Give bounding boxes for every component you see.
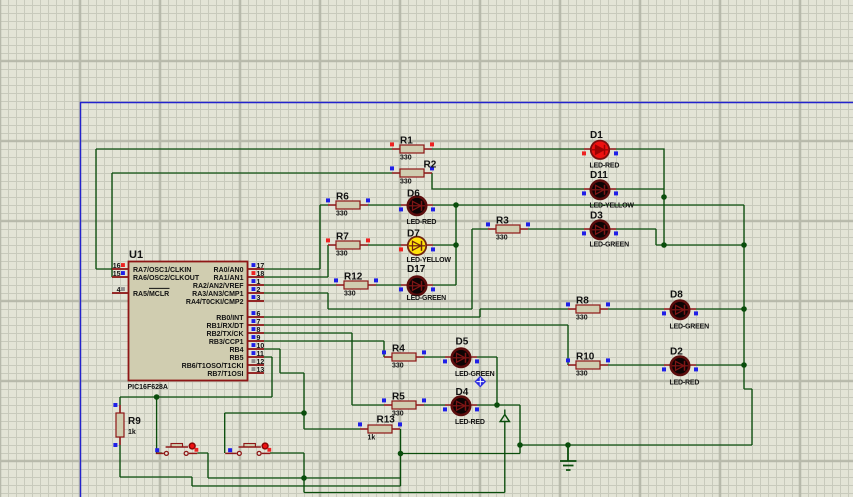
svg-text:D6: D6: [407, 189, 420, 200]
svg-text:R8: R8: [576, 296, 589, 307]
wire D1 right down x=664: [616, 149, 664, 245]
wire row453 to dot400: [401, 453, 521, 455]
svg-text:9: 9: [257, 335, 261, 342]
U1 pin 2 stub and number: [248, 292, 264, 294]
svg-text:RA7/OSC1/CLKIN: RA7/OSC1/CLKIN: [133, 267, 191, 274]
svg-text:U1: U1: [129, 249, 143, 261]
U1 pin 15 stub and number: [112, 276, 128, 278]
wire pin7 RB1 to R10: [264, 325, 568, 365]
wire ground row445: [520, 444, 752, 446]
wire R4 to D5: [424, 356, 445, 358]
svg-text:18: 18: [257, 271, 265, 278]
wire pin1 RA2 to R12: [264, 284, 336, 286]
wire R9 top lead wire: [119, 397, 121, 405]
LED D5 (LED-GREEN): [443, 337, 495, 379]
svg-text:RA2/AN2/VREF: RA2/AN2/VREF: [193, 283, 244, 290]
resistor R2 (330): [390, 160, 437, 186]
wire button1 left branch: [157, 397, 162, 453]
wire R10 to D2: [608, 364, 664, 366]
wire x=520 down to row453: [519, 405, 521, 454]
svg-text:RB7/T1OSI: RB7/T1OSI: [207, 371, 243, 378]
wire row397 R9 top: [120, 396, 272, 398]
wire pin16 RA7 to R1: [96, 149, 392, 269]
resistor R10 (330): [566, 352, 610, 378]
svg-text:1k: 1k: [128, 429, 136, 436]
svg-text:16: 16: [113, 263, 121, 270]
svg-text:330: 330: [336, 211, 348, 218]
svg-text:LED-RED: LED-RED: [407, 219, 437, 226]
svg-text:LED-RED: LED-RED: [670, 380, 700, 387]
U1 pin 12 stub and number: [248, 364, 264, 366]
svg-text:LED-YELLOW: LED-YELLOW: [407, 257, 452, 264]
svg-text:RB6/T1OSO/T1CKI: RB6/T1OSO/T1CKI: [182, 363, 244, 370]
svg-text:R4: R4: [392, 344, 405, 355]
wire D3 right jog to row245: [616, 229, 744, 245]
sheet border (blue): [81, 103, 853, 497]
svg-text:17: 17: [257, 263, 265, 270]
resistor R13 (1k): [358, 415, 402, 442]
wire D11 right to x=664: [616, 188, 664, 190]
U1 pin 10 stub and number: [248, 348, 264, 350]
resistor R12 (330): [334, 272, 378, 298]
svg-text:R7: R7: [336, 232, 349, 243]
svg-text:R12: R12: [344, 272, 363, 283]
wire D5 right down to D4 row: [477, 357, 497, 405]
svg-text:R13: R13: [377, 415, 396, 426]
svg-text:2: 2: [257, 287, 261, 294]
svg-text:330: 330: [576, 371, 588, 378]
svg-text:13: 13: [257, 367, 265, 374]
junction node (664,245): [661, 242, 667, 248]
wire pin2 RA3 to R3: [264, 229, 488, 309]
wire R6 to D6: [368, 204, 401, 206]
wire return rail x=744 down to row445: [744, 205, 752, 445]
svg-text:RA1/AN1: RA1/AN1: [214, 275, 244, 282]
svg-text:R2: R2: [424, 160, 437, 171]
wire pin17 RA0 to R6: [264, 205, 328, 269]
junction node (456,205): [453, 202, 459, 208]
svg-text:330: 330: [400, 179, 412, 186]
wire pin9 RB3 to R4: [264, 341, 384, 357]
junction node (156.6,397): [154, 394, 160, 400]
resistor R1 (330): [390, 136, 434, 162]
junction node (520,445): [517, 442, 523, 448]
wire row492 to arrow wire: [304, 421, 505, 493]
wire R1 to D1: [432, 148, 584, 150]
svg-text:330: 330: [496, 235, 508, 242]
svg-text:LED-GREEN: LED-GREEN: [670, 324, 710, 331]
U1 pin 7 stub and number: [248, 324, 264, 326]
junction node (304,478): [301, 475, 307, 481]
wire R8 to D8: [608, 308, 664, 310]
svg-text:8: 8: [257, 327, 261, 334]
U1 pin 4 stub and number: [112, 292, 128, 294]
wire D2 right to x=744: [696, 364, 744, 366]
svg-text:PIC16F628A: PIC16F628A: [128, 384, 168, 391]
U1 pin 3 stub and number: [248, 300, 264, 302]
svg-text:D17: D17: [407, 264, 426, 275]
LED D8 (LED-GREEN): [662, 290, 709, 331]
wire R9 bottom route: [120, 445, 401, 486]
svg-text:RB1/RX/DT: RB1/RX/DT: [207, 323, 245, 330]
svg-text:15: 15: [113, 271, 121, 278]
junction node (568,445): [565, 442, 571, 448]
wire R2 right down to D11: [432, 173, 584, 189]
wire R13 right down: [400, 429, 402, 486]
svg-text:R3: R3: [496, 216, 509, 227]
U1 pin 16 stub and number: [112, 268, 128, 270]
svg-text:D1: D1: [590, 130, 603, 141]
junction node (744,309): [741, 306, 747, 312]
svg-text:1k: 1k: [368, 435, 376, 442]
LED D3 (LED-GREEN): [582, 211, 629, 249]
wire vertical x=456 (D6/D7/D17 cathodes): [455, 205, 457, 285]
LED D7 (LED-YELLOW): [399, 229, 451, 265]
svg-text:LED-YELLOW: LED-YELLOW: [590, 203, 635, 210]
svg-text:D2: D2: [670, 347, 683, 358]
wire-end arrow marker: [500, 410, 509, 422]
svg-text:330: 330: [392, 363, 404, 370]
svg-text:D5: D5: [456, 337, 469, 348]
push button SW2: [225, 443, 271, 455]
svg-text:LED-GREEN: LED-GREEN: [590, 242, 630, 249]
wire pin6 RB0 to R8: [264, 309, 568, 317]
wire button1 right to row478: [197, 453, 400, 478]
svg-text:7: 7: [257, 319, 261, 326]
U1 pin 1 stub and number: [248, 284, 264, 286]
svg-text:RA3/AN3/CMP1: RA3/AN3/CMP1: [192, 291, 243, 298]
svg-text:330: 330: [400, 155, 412, 162]
svg-text:D7: D7: [407, 229, 420, 240]
U1 pin 9 stub and number: [248, 340, 264, 342]
svg-text:RB3/CCP1: RB3/CCP1: [209, 339, 244, 346]
LED D2 (LED-RED): [662, 347, 699, 387]
wire D8 right to x=744: [696, 308, 744, 310]
wire D6 right long row205 to x=744: [433, 204, 744, 206]
svg-text:LED-GREEN: LED-GREEN: [455, 371, 495, 378]
wire row413 to button2 left: [225, 413, 304, 453]
junction node (744,245): [741, 242, 747, 248]
svg-text:RA0/AN0: RA0/AN0: [214, 267, 244, 274]
wire pin18 RA1 to R7: [264, 245, 328, 277]
svg-text:D11: D11: [590, 170, 608, 181]
svg-text:6: 6: [257, 311, 261, 318]
svg-text:RA5/MCLR: RA5/MCLR: [133, 291, 169, 298]
svg-text:330: 330: [344, 291, 356, 298]
svg-text:10: 10: [257, 343, 265, 350]
junction node (304,413): [301, 410, 307, 416]
svg-text:330: 330: [576, 315, 588, 322]
wire pin11 RB5 route: [264, 357, 272, 397]
resistor R7 (330): [326, 232, 370, 258]
svg-text:RA6/OSC2/CLKOUT: RA6/OSC2/CLKOUT: [133, 275, 200, 282]
wire D17 right to x=456: [433, 284, 456, 286]
wire D4 right to x=520: [477, 404, 520, 406]
svg-text:D3: D3: [590, 211, 603, 222]
resistor R3 (330): [486, 216, 530, 242]
U1 pin 13 stub and number: [248, 372, 264, 374]
U1 pin 17 stub and number: [248, 268, 264, 270]
junction node (456,245): [453, 242, 459, 248]
svg-text:R5: R5: [392, 392, 405, 403]
svg-text:D8: D8: [670, 290, 683, 301]
svg-text:4: 4: [117, 287, 121, 294]
svg-text:330: 330: [336, 251, 348, 258]
LED D4 (LED-RED): [443, 387, 485, 426]
wire R12 to D17: [376, 284, 401, 286]
push button SW1: [155, 443, 198, 455]
U1 pin 6 stub and number: [248, 316, 264, 318]
junction node (497,405): [494, 402, 500, 408]
svg-text:RB4: RB4: [229, 347, 243, 354]
svg-text:R6: R6: [336, 192, 349, 203]
svg-text:11: 11: [257, 351, 265, 358]
svg-text:R9: R9: [128, 416, 141, 427]
resistor R8 (330): [566, 296, 610, 322]
LED D17 (LED-GREEN): [399, 264, 446, 302]
U1 pin 18 stub and number: [248, 276, 264, 278]
move cursor diamond marker: [475, 376, 487, 388]
wire R7 to D7: [368, 244, 401, 246]
LED D6 (LED-RED): [399, 189, 436, 227]
svg-text:D4: D4: [456, 387, 469, 398]
wire D7 right to x=456: [433, 244, 456, 246]
svg-text:LED-RED: LED-RED: [590, 163, 620, 170]
wire button2 right down x=304: [270, 453, 304, 493]
wire R5 to D4: [424, 404, 445, 406]
ground symbol: [560, 445, 577, 470]
wire pin8 RB2 to R5: [264, 333, 384, 405]
microcontroller U1 PIC16F628A: [112, 249, 264, 391]
wire pin15 RA6 up to y173: [112, 173, 392, 277]
junction node (744,365): [741, 362, 747, 368]
U1 pin 11 stub and number: [248, 356, 264, 358]
svg-text:R1: R1: [400, 136, 413, 147]
resistor R5 (330): [382, 392, 426, 418]
svg-text:3: 3: [257, 295, 261, 302]
LED D1 (LED-RED): [582, 130, 619, 170]
resistor R4 (330): [382, 344, 426, 370]
svg-text:12: 12: [257, 359, 265, 366]
U1 pin 8 stub and number: [248, 332, 264, 334]
junction node (664,197): [661, 194, 667, 200]
resistor R9 (1k) vertical: [113, 403, 141, 447]
LED D11 (LED-YELLOW): [582, 170, 634, 210]
svg-text:RB0/INT: RB0/INT: [216, 315, 244, 322]
resistor R6 (330): [326, 192, 370, 218]
svg-text:LED-RED: LED-RED: [455, 419, 485, 426]
svg-text:LED-GREEN: LED-GREEN: [407, 295, 447, 302]
svg-text:RA4/T0CKI/CMP2: RA4/T0CKI/CMP2: [186, 299, 244, 306]
wire R3 to D3: [528, 228, 584, 230]
svg-text:RB2/TX/CK: RB2/TX/CK: [207, 331, 244, 338]
svg-text:1: 1: [257, 279, 261, 286]
svg-text:RB5: RB5: [229, 355, 243, 362]
svg-text:R10: R10: [576, 352, 595, 363]
wire pin10 RB4 route: [264, 349, 360, 429]
junction node (400.5,453.5): [398, 451, 404, 457]
